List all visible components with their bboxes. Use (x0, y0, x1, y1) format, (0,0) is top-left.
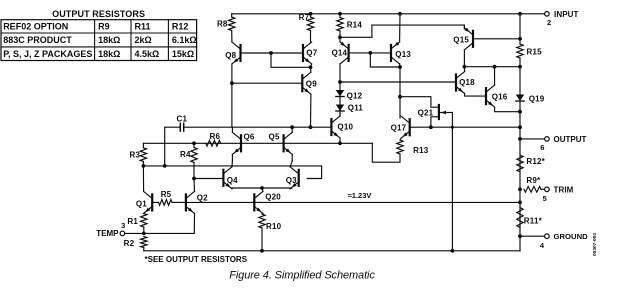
svg-text:R13: R13 (413, 146, 429, 155)
svg-text:Q5: Q5 (269, 132, 280, 141)
svg-text:R3: R3 (130, 150, 141, 159)
svg-text:R6: R6 (210, 132, 221, 141)
svg-text:Q16: Q16 (492, 92, 508, 101)
svg-text:R9: R9 (98, 22, 110, 32)
svg-text:TEMP: TEMP (96, 229, 119, 238)
svg-text:4.5kΩ: 4.5kΩ (135, 49, 160, 59)
svg-text:Q15: Q15 (453, 35, 469, 44)
svg-text:GROUND: GROUND (554, 232, 589, 241)
svg-text:R14: R14 (347, 21, 363, 30)
svg-text:R15: R15 (527, 48, 543, 57)
svg-text:Q4: Q4 (227, 176, 238, 185)
svg-text:Q17: Q17 (391, 123, 407, 132)
svg-text:OUTPUT: OUTPUT (554, 135, 587, 144)
svg-text:2kΩ: 2kΩ (135, 35, 152, 45)
svg-text:R12*: R12* (526, 157, 545, 166)
svg-text:18kΩ: 18kΩ (98, 49, 120, 59)
svg-text:4: 4 (540, 241, 545, 250)
svg-text:Q20: Q20 (265, 193, 281, 202)
svg-text:TRIM: TRIM (554, 185, 574, 194)
svg-text:15kΩ: 15kΩ (172, 49, 194, 59)
svg-text:Q1: Q1 (136, 199, 147, 208)
svg-text:6: 6 (540, 143, 544, 152)
svg-text:Q7: Q7 (306, 48, 317, 57)
svg-text:18kΩ: 18kΩ (98, 35, 120, 45)
svg-text:R11*: R11* (524, 216, 543, 225)
svg-text:R5: R5 (161, 190, 172, 199)
svg-text:Q3: Q3 (286, 176, 297, 185)
svg-text:Figure 4. Simplified Schematic: Figure 4. Simplified Schematic (229, 270, 375, 282)
svg-text:Q13: Q13 (395, 50, 411, 59)
svg-text:R7: R7 (299, 13, 310, 22)
svg-text:OUTPUT RESISTORS: OUTPUT RESISTORS (52, 9, 145, 19)
svg-text:Q12: Q12 (347, 91, 363, 100)
svg-text:R11: R11 (135, 22, 151, 32)
svg-text:Q19: Q19 (529, 94, 545, 103)
svg-text:5: 5 (543, 194, 547, 203)
svg-text:Q2: Q2 (197, 193, 208, 202)
svg-text:Q9: Q9 (306, 80, 317, 89)
svg-text:INPUT: INPUT (554, 10, 579, 19)
svg-text:R12: R12 (172, 22, 189, 32)
svg-text:R8: R8 (217, 20, 228, 29)
svg-text:R9*: R9* (526, 176, 541, 185)
svg-text:Q8: Q8 (225, 51, 236, 60)
svg-text:00307-004: 00307-004 (592, 233, 598, 256)
svg-text:Q6: Q6 (244, 132, 255, 141)
svg-text:REF02 OPTION: REF02 OPTION (3, 22, 68, 32)
svg-text:Q14: Q14 (331, 48, 347, 57)
svg-text:P, S, J, Z PACKAGES: P, S, J, Z PACKAGES (3, 49, 92, 59)
svg-text:3: 3 (121, 221, 125, 230)
svg-text:Q10: Q10 (337, 123, 353, 132)
svg-text:R1: R1 (127, 217, 138, 226)
svg-text:*SEE OUTPUT RESISTORS: *SEE OUTPUT RESISTORS (145, 255, 248, 264)
svg-text:2: 2 (547, 18, 551, 27)
svg-text:C1: C1 (176, 114, 187, 123)
svg-text:Q21: Q21 (418, 108, 434, 117)
svg-text:883C PRODUCT: 883C PRODUCT (3, 35, 72, 45)
svg-text:Q11: Q11 (348, 103, 364, 112)
svg-text:R2: R2 (124, 239, 135, 248)
svg-text:R4: R4 (180, 150, 191, 159)
svg-text:R10: R10 (266, 222, 282, 231)
svg-text:Q18: Q18 (459, 78, 475, 87)
svg-text:≈1.23V: ≈1.23V (348, 191, 372, 200)
svg-text:6.1kΩ: 6.1kΩ (172, 35, 197, 45)
